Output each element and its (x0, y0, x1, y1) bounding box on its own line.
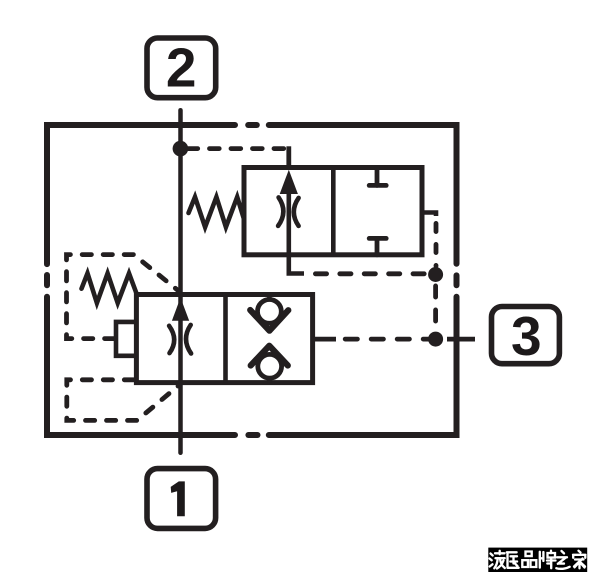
port 1 label box (147, 469, 216, 529)
U1 spring (189, 197, 244, 227)
U2 spring (82, 273, 137, 303)
svg-text:3: 3 (511, 305, 542, 367)
main flow line from port 2 to port 1 (178, 110, 183, 453)
pilot dashed stub down to node B (434, 223, 439, 266)
glyph 1 (liquid) (490, 551, 505, 569)
U1 blocked-port T symbol top (369, 168, 386, 186)
U2 pilot piston (116, 322, 136, 356)
counterbalance valve U2 body (136, 295, 312, 383)
svg-text:2: 2 (166, 37, 197, 99)
U2 flow arrow head (172, 298, 189, 321)
glyph 5 (zhi) (556, 551, 569, 569)
valve envelope border (47, 125, 457, 435)
port 3 label box (492, 307, 560, 364)
U1 blocked-port T symbol bottom (369, 238, 386, 254)
pilot line node A to pilot valve (dashed) (188, 146, 289, 151)
port 2 label box (147, 38, 216, 98)
check valve CV2 (bottom, seat above ball) (251, 346, 288, 383)
port 1 label text (171, 481, 185, 516)
U1 drain dashed line to node B (315, 271, 429, 276)
U2 orifice arcs (169, 326, 174, 353)
upper-left pilot structure (dashed) (67, 255, 180, 339)
port 3 line dashed segment (345, 337, 428, 342)
U2 chamber divider (223, 295, 228, 383)
watermark box (488, 548, 587, 572)
port 3 line: solid stub from U2 (313, 337, 337, 342)
pilot relief valve U1 body (244, 168, 422, 255)
check valve CV1 (top, seat below ball) (250, 295, 288, 331)
watermark pseudo glyph strokes (490, 551, 586, 569)
U1 orifice arcs (278, 197, 283, 226)
dashed link node B to node C (433, 286, 438, 331)
port 3 line border crossing segment (447, 337, 475, 342)
glyph 4 (brand) (540, 551, 556, 569)
U1 chamber divider (331, 168, 336, 255)
node C junction (428, 332, 443, 347)
pilot line corner into pilot valve (solid) (286, 146, 291, 170)
U1 flow arrow head (280, 170, 298, 194)
node B junction (428, 267, 443, 282)
U1 right pilot stub (solid) (422, 213, 436, 217)
glyph 6 (home) (573, 551, 586, 569)
lower-left pilot structure (dashed) (67, 380, 180, 421)
glyph 2 (press) (507, 552, 519, 568)
node A junction on main line (173, 141, 189, 157)
U1 flow arrow shaft and drain corner (289, 190, 304, 274)
glyph 3 (goods: three boxes) (522, 552, 536, 568)
